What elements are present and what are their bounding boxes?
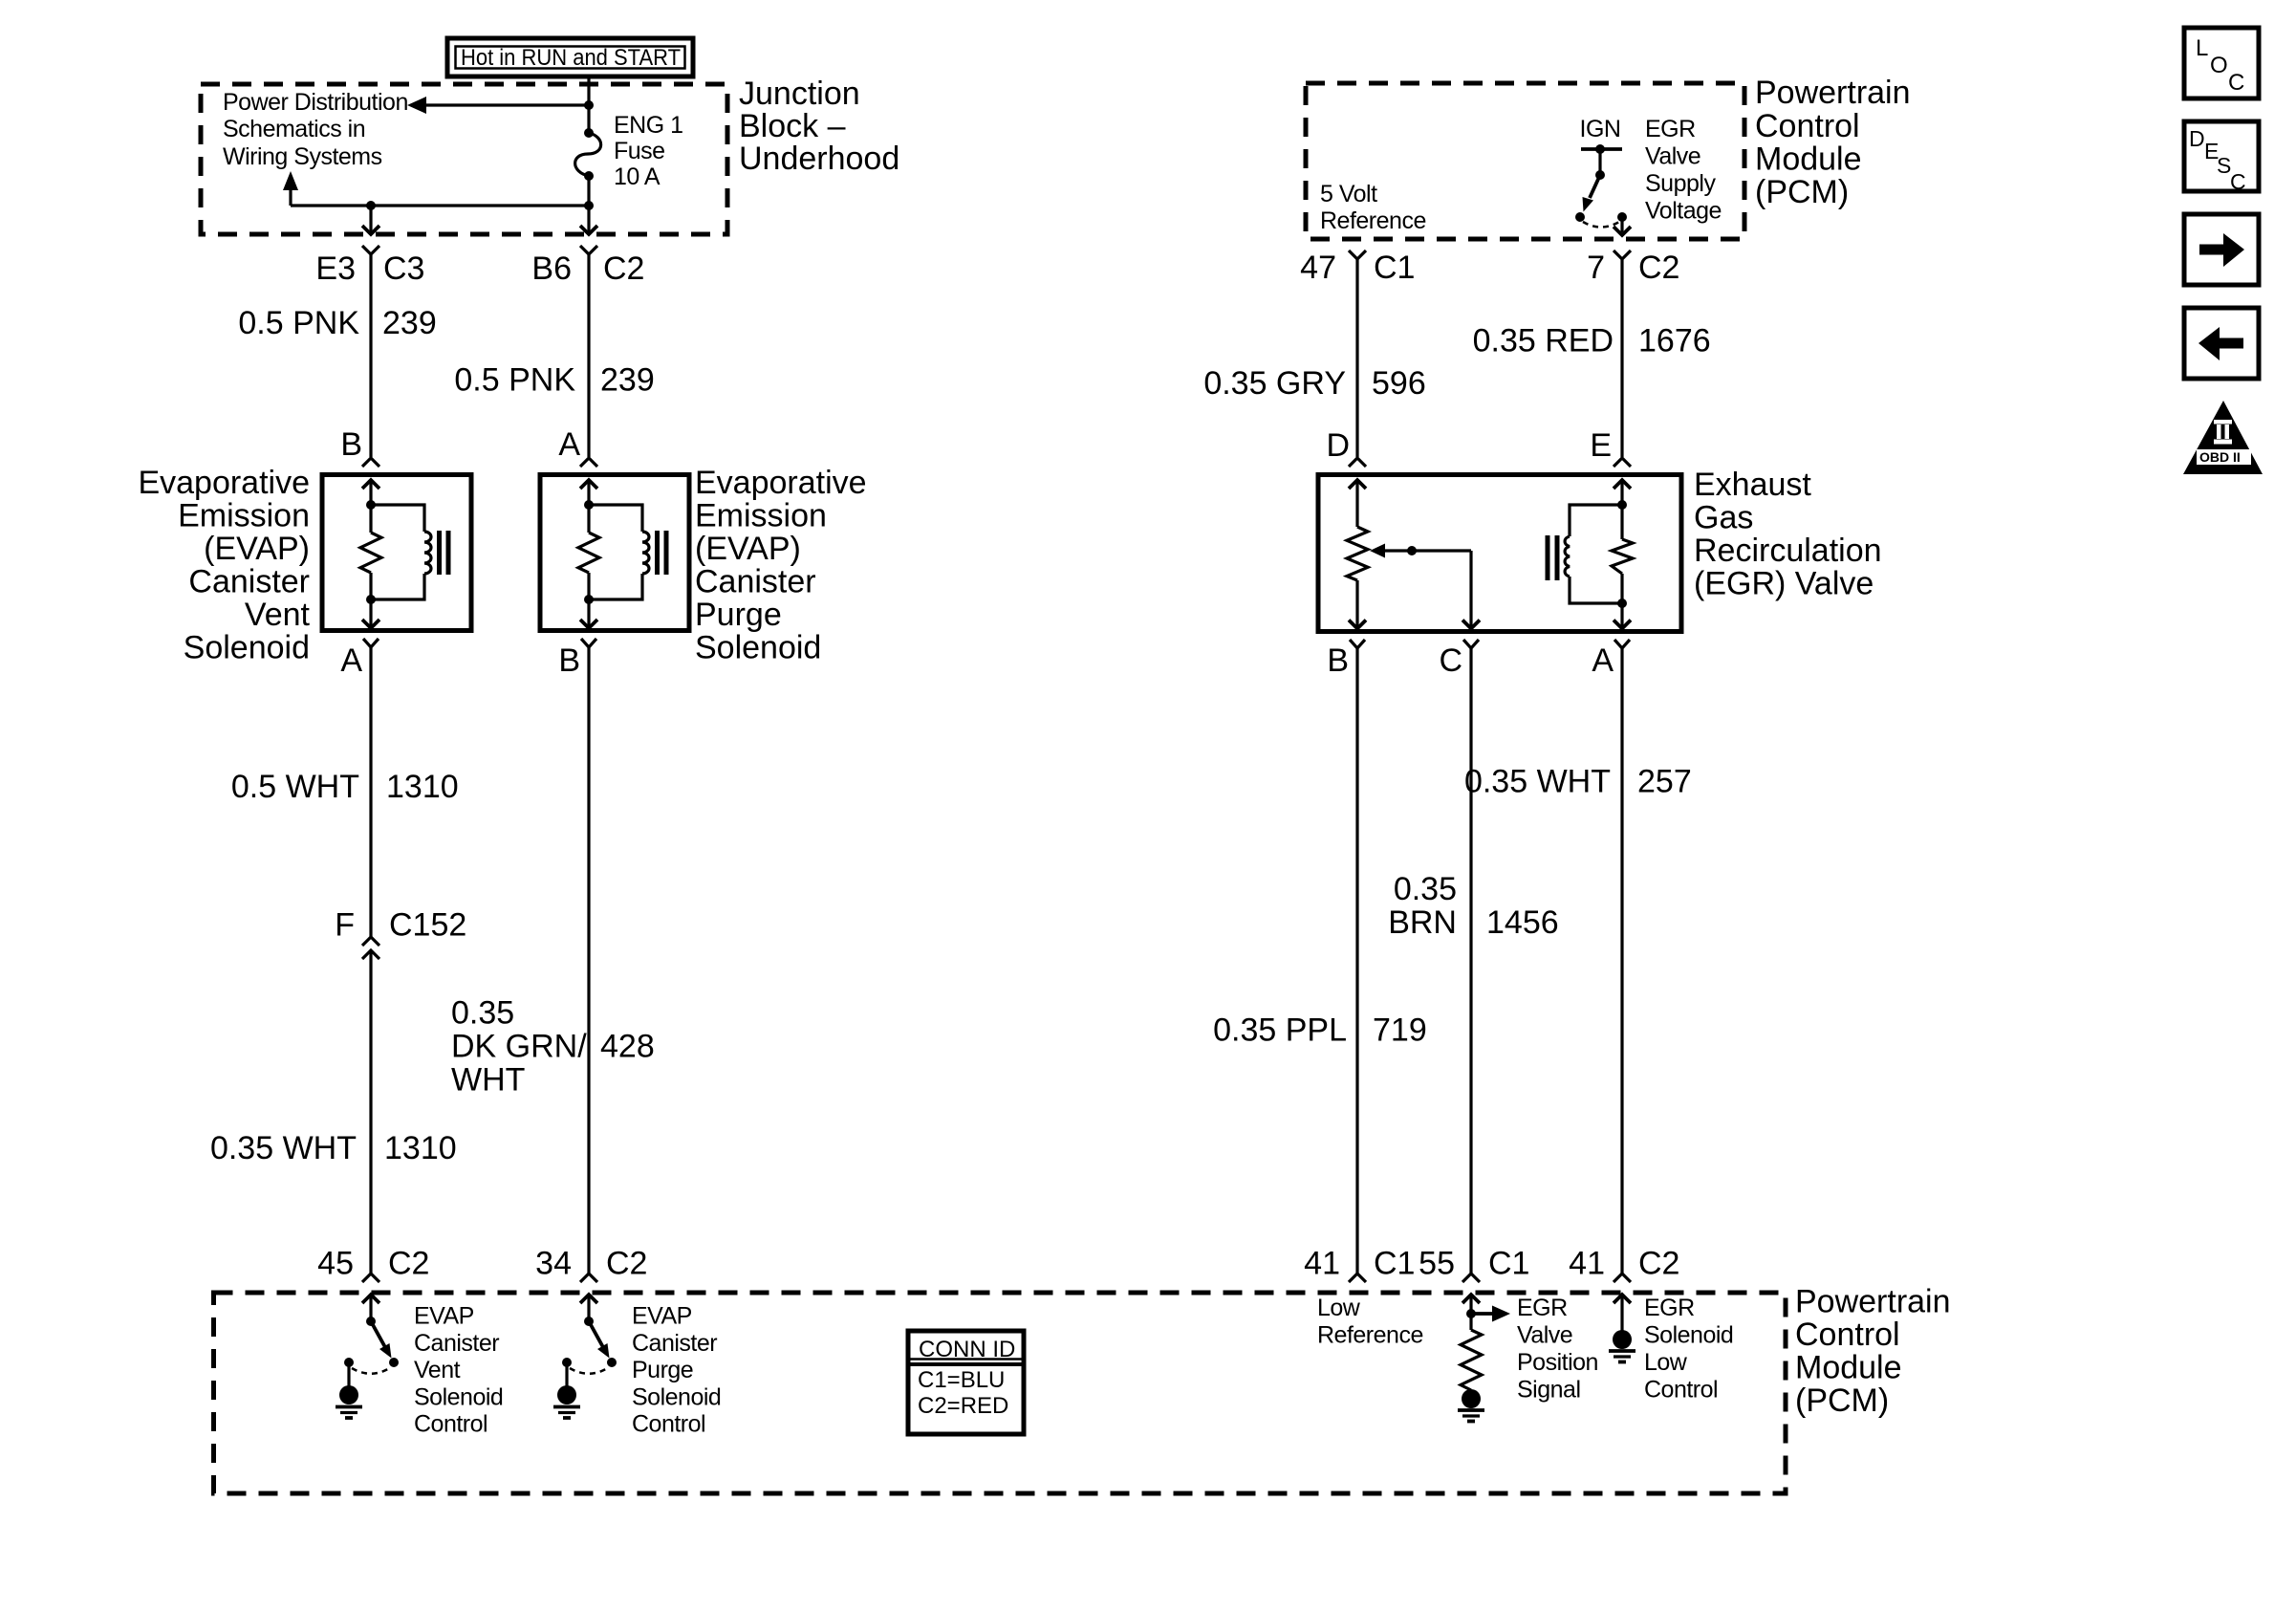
svg-text:Control: Control — [1755, 108, 1860, 144]
label: 5 Volt Reference — [1320, 181, 1426, 234]
svg-text:Canister: Canister — [414, 1330, 499, 1357]
svg-text:C1: C1 — [1374, 250, 1415, 286]
connector 55 C1 — [1419, 1246, 1529, 1283]
svg-text:Schematics in: Schematics in — [223, 116, 365, 142]
svg-text:A: A — [558, 426, 580, 463]
wire: hot feed into junction block — [587, 76, 590, 131]
svg-text:Valve: Valve — [1645, 143, 1700, 170]
label: Low Reference — [1317, 1295, 1423, 1349]
svg-text:Solenoid: Solenoid — [1644, 1322, 1733, 1349]
wire: 0.35 GRY 596 — [1355, 259, 1358, 457]
inline connector F C152 — [335, 907, 466, 960]
svg-text:Power Distribution: Power Distribution — [223, 89, 408, 116]
label: Powertrain Control Module (PCM) bottom — [1795, 1284, 1951, 1420]
wire: arrow to power distribution schematics — [421, 103, 589, 106]
svg-text:C1: C1 — [1374, 1246, 1415, 1282]
label: Exhaust Gas Recirculation (EGR) Valve — [1694, 467, 1882, 602]
ground (vent driver) — [339, 1385, 358, 1404]
label: Evaporative Emission (EVAP) Canister Vent Solenoid — [138, 465, 310, 666]
svg-text:Signal: Signal — [1517, 1377, 1581, 1404]
svg-text:Fuse: Fuse — [614, 138, 665, 164]
svg-text:0.35 PPL: 0.35 PPL — [1213, 1012, 1347, 1049]
svg-text:0.35: 0.35 — [451, 995, 514, 1032]
svg-text:Vent: Vent — [245, 597, 311, 633]
svg-text:239: 239 — [600, 362, 655, 399]
svg-text:Module: Module — [1755, 142, 1862, 178]
svg-text:E3: E3 — [315, 250, 356, 287]
EGR position wiper — [1370, 544, 1480, 629]
svg-text:Emission: Emission — [178, 498, 310, 534]
EVAP canister vent solenoid control driver — [336, 1295, 399, 1418]
svg-text:5 Volt: 5 Volt — [1320, 181, 1377, 207]
svg-text:47: 47 — [1300, 250, 1336, 286]
pin C of EGR valve — [1439, 640, 1479, 679]
coil (purge solenoid) — [589, 505, 642, 532]
svg-text:Exhaust: Exhaust — [1694, 467, 1811, 503]
resistor (vent solenoid winding) — [360, 533, 381, 573]
svg-text:0.35 RED: 0.35 RED — [1473, 323, 1614, 359]
svg-text:C1: C1 — [1488, 1246, 1529, 1282]
svg-text:EVAP: EVAP — [632, 1303, 692, 1330]
label: EGR Solenoid Low Control — [1644, 1295, 1733, 1404]
svg-text:C2: C2 — [388, 1246, 429, 1282]
connector E3 C3 — [315, 246, 424, 287]
svg-text:C2: C2 — [1638, 1246, 1679, 1282]
resistor (EGR solenoid winding) — [1612, 539, 1633, 574]
svg-text:ENG 1: ENG 1 — [614, 112, 683, 139]
svg-text:Canister: Canister — [632, 1330, 717, 1357]
label: EVAP Canister Purge Solenoid Control — [632, 1303, 721, 1438]
EVAP canister purge solenoid box — [540, 475, 689, 631]
svg-text:O: O — [2210, 53, 2228, 78]
svg-text:0.35 WHT: 0.35 WHT — [210, 1130, 357, 1166]
wire: B6 drop with exit arrow — [587, 206, 590, 232]
svg-text:B6: B6 — [531, 250, 572, 287]
svg-text:IGN: IGN — [1580, 116, 1621, 142]
pin A of purge solenoid — [558, 426, 597, 467]
svg-text:Powertrain: Powertrain — [1755, 75, 1911, 111]
svg-text:B: B — [558, 642, 580, 679]
label: EGR Valve Supply Voltage — [1645, 116, 1722, 225]
pin D of EGR valve — [1326, 427, 1366, 467]
svg-text:(EGR) Valve: (EGR) Valve — [1694, 566, 1874, 602]
svg-text:EVAP: EVAP — [414, 1303, 474, 1330]
EGR valve position signal input — [1458, 1295, 1510, 1422]
icon: OBD II triangle — [2183, 401, 2263, 474]
wire: 0.5 WHT 1310 — [369, 647, 372, 937]
label: Powertrain Control Module (PCM) top — [1755, 75, 1911, 210]
node: bus dot at E3 drop — [366, 201, 376, 210]
svg-text:D: D — [2189, 126, 2205, 151]
svg-text:Module: Module — [1795, 1350, 1902, 1386]
wire: arrow up to wiring systems text — [289, 188, 292, 206]
svg-text:Canister: Canister — [695, 564, 816, 600]
svg-text:Solenoid: Solenoid — [184, 630, 310, 666]
svg-text:(EVAP): (EVAP) — [204, 531, 310, 567]
IGN supply switch inside PCM — [1575, 116, 1631, 235]
wire: 0.35 PPL 719 — [1355, 648, 1358, 1274]
svg-text:C2: C2 — [603, 250, 644, 287]
svg-text:(PCM): (PCM) — [1755, 174, 1849, 210]
wire: fuse to bus — [587, 176, 590, 206]
svg-text:10 A: 10 A — [614, 163, 661, 190]
ground (solenoid low control) — [1613, 1330, 1632, 1349]
svg-text:EGR: EGR — [1645, 116, 1696, 142]
svg-text:719: 719 — [1373, 1012, 1427, 1049]
svg-text:Control: Control — [1644, 1377, 1718, 1404]
svg-text:Solenoid: Solenoid — [414, 1383, 503, 1410]
svg-text:(EVAP): (EVAP) — [695, 531, 801, 567]
svg-text:BRN: BRN — [1388, 904, 1457, 941]
svg-text:A: A — [1592, 642, 1614, 679]
vent solenoid internals — [360, 480, 451, 628]
svg-text:45: 45 — [317, 1246, 354, 1282]
svg-text:Wiring Systems: Wiring Systems — [223, 143, 382, 170]
svg-text:1456: 1456 — [1486, 904, 1559, 941]
svg-text:0.5 WHT: 0.5 WHT — [231, 769, 359, 805]
connector 34 C2 — [535, 1246, 647, 1283]
svg-text:1310: 1310 — [384, 1130, 457, 1166]
CONN ID legend box — [908, 1331, 1024, 1434]
svg-text:0.35 WHT: 0.35 WHT — [1464, 764, 1611, 800]
Hot in RUN and START flag box — [447, 38, 693, 76]
svg-text:596: 596 — [1372, 365, 1426, 402]
svg-text:0.5 PNK: 0.5 PNK — [454, 362, 575, 399]
icon: LOC box — [2184, 28, 2259, 98]
svg-text:OBD II: OBD II — [2199, 449, 2241, 465]
svg-text:Supply: Supply — [1645, 170, 1716, 197]
svg-text:Canister: Canister — [188, 564, 310, 600]
svg-text:Purge: Purge — [632, 1357, 693, 1383]
svg-text:(PCM): (PCM) — [1795, 1382, 1889, 1419]
resistor (position signal pull-down) — [1461, 1330, 1482, 1390]
node: bus dot right — [584, 201, 594, 210]
label: Evaporative Emission (EVAP) Canister Purge Solenoid — [695, 465, 867, 666]
connector 41 C1 — [1304, 1246, 1415, 1283]
resistor (purge solenoid winding) — [578, 533, 599, 573]
pin E of EGR valve — [1590, 427, 1631, 467]
svg-text:Voltage: Voltage — [1645, 198, 1722, 225]
svg-text:C: C — [2228, 70, 2244, 96]
connector 7 C2 — [1587, 250, 1679, 286]
svg-text:C: C — [2230, 169, 2246, 194]
svg-text:428: 428 — [600, 1029, 655, 1065]
svg-text:A: A — [340, 642, 362, 679]
svg-text:E: E — [1590, 427, 1612, 464]
pin A of EGR valve — [1592, 640, 1630, 679]
svg-text:Underhood: Underhood — [739, 141, 899, 177]
connector 45 C2 — [317, 1246, 429, 1283]
coil (vent solenoid) — [371, 505, 424, 532]
EGR valve box — [1318, 475, 1681, 632]
connector B6 C2 — [531, 246, 644, 287]
svg-text:Low: Low — [1644, 1349, 1688, 1376]
label: Power Distribution Schematics in Wiring Systems — [223, 89, 408, 170]
svg-text:1310: 1310 — [386, 769, 459, 805]
svg-text:Emission: Emission — [695, 498, 827, 534]
svg-text:B: B — [340, 426, 362, 463]
svg-text:Evaporative: Evaporative — [695, 465, 867, 501]
PCM bottom dashed box — [214, 1293, 1787, 1493]
PCM top dashed box — [1306, 83, 1744, 239]
ground (position signal) — [1462, 1389, 1481, 1408]
svg-text:C2=RED: C2=RED — [918, 1393, 1008, 1419]
svg-text:0.5 PNK: 0.5 PNK — [238, 305, 359, 341]
pin B of purge solenoid — [558, 639, 596, 679]
svg-text:239: 239 — [382, 305, 437, 341]
svg-text:DK GRN/: DK GRN/ — [451, 1029, 587, 1065]
label: Junction Block - Underhood — [739, 76, 899, 177]
wire: horizontal bus in junction block — [291, 204, 589, 207]
svg-text:Recirculation: Recirculation — [1694, 533, 1882, 569]
svg-text:0.35 GRY: 0.35 GRY — [1203, 365, 1346, 402]
svg-text:Low: Low — [1317, 1295, 1361, 1321]
svg-text:F: F — [335, 907, 355, 944]
EGR solenoid coil and resistor — [1546, 480, 1634, 629]
junction block dashed box — [201, 84, 727, 234]
EVAP canister purge solenoid control driver — [553, 1295, 617, 1418]
svg-text:Vent: Vent — [414, 1357, 461, 1383]
svg-text:EGR: EGR — [1517, 1295, 1568, 1321]
svg-text:55: 55 — [1419, 1246, 1455, 1282]
svg-text:257: 257 — [1637, 764, 1692, 800]
svg-text:C3: C3 — [383, 250, 424, 287]
svg-text:7: 7 — [1587, 250, 1605, 286]
svg-text:WHT: WHT — [451, 1062, 525, 1099]
wire: 0.35 BRN 1456 — [1469, 648, 1472, 1274]
svg-text:1676: 1676 — [1638, 323, 1711, 359]
wire: 0.35 DK GRN/WHT 428 — [587, 647, 590, 1274]
svg-text:Purge: Purge — [695, 597, 782, 633]
wire: 0.5 PNK 239 (vent feed) — [369, 254, 372, 457]
purge solenoid internals — [578, 480, 669, 628]
label: EGR Valve Position Signal — [1517, 1295, 1598, 1404]
icon: back arrow box — [2184, 308, 2259, 379]
pin B of EGR valve — [1327, 640, 1365, 679]
wire: 0.35 WHT 257 — [1620, 648, 1623, 1274]
svg-text:0.35: 0.35 — [1394, 871, 1457, 907]
svg-text:Control: Control — [632, 1411, 705, 1438]
coil (EGR solenoid) — [1570, 505, 1622, 536]
svg-text:41: 41 — [1304, 1246, 1340, 1282]
pin A of vent solenoid — [340, 639, 379, 679]
svg-text:Hot in RUN and START: Hot in RUN and START — [461, 45, 681, 71]
connector 47 C1 — [1300, 250, 1415, 286]
wire: 0.35 WHT 1310 — [369, 950, 372, 1274]
icon: forward arrow box — [2184, 214, 2259, 285]
node: feed junction dot — [584, 100, 594, 110]
pin B of vent solenoid — [340, 426, 379, 467]
svg-text:Valve: Valve — [1517, 1322, 1572, 1349]
svg-text:Junction: Junction — [739, 76, 860, 112]
svg-text:C1=BLU: C1=BLU — [918, 1367, 1005, 1393]
EGR solenoid low control ground — [1609, 1295, 1635, 1362]
svg-text:Control: Control — [414, 1411, 487, 1438]
svg-text:34: 34 — [535, 1246, 572, 1282]
icon: DESC box — [2184, 121, 2259, 194]
svg-text:B: B — [1327, 642, 1349, 679]
ground (purge driver) — [557, 1385, 576, 1404]
svg-text:D: D — [1326, 427, 1350, 464]
svg-text:C152: C152 — [389, 907, 466, 944]
EGR position sensor potentiometer — [1347, 480, 1368, 629]
svg-text:Solenoid: Solenoid — [695, 630, 821, 666]
svg-text:Reference: Reference — [1320, 207, 1426, 234]
wire: 0.35 RED 1676 — [1620, 259, 1623, 457]
svg-text:Gas: Gas — [1694, 500, 1753, 536]
svg-text:41: 41 — [1569, 1246, 1605, 1282]
svg-text:Control: Control — [1795, 1317, 1900, 1353]
wire: E3 drop with exit arrow — [369, 206, 372, 232]
svg-text:Reference: Reference — [1317, 1322, 1423, 1349]
wire: 0.5 PNK 239 second — [587, 254, 590, 457]
svg-text:C: C — [1439, 642, 1462, 679]
label: EVAP Canister Vent Solenoid Control — [414, 1303, 503, 1438]
svg-text:EGR: EGR — [1644, 1295, 1695, 1321]
svg-text:Evaporative: Evaporative — [138, 465, 310, 501]
fuse ENG 1 10 A — [575, 112, 683, 190]
svg-text:Powertrain: Powertrain — [1795, 1284, 1951, 1320]
svg-text:CONN ID: CONN ID — [919, 1337, 1015, 1362]
EVAP canister vent solenoid box — [322, 475, 471, 631]
svg-text:L: L — [2196, 35, 2208, 61]
svg-text:C2: C2 — [1638, 250, 1679, 286]
svg-text:Block –: Block – — [739, 108, 846, 144]
svg-text:Position: Position — [1517, 1349, 1598, 1376]
connector 41 C2 — [1569, 1246, 1679, 1283]
svg-text:C2: C2 — [606, 1246, 647, 1282]
svg-text:Solenoid: Solenoid — [632, 1383, 721, 1410]
